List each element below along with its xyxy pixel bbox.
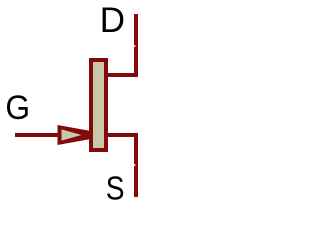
wire gate <box>15 133 60 137</box>
svg-text:G: G <box>5 88 30 126</box>
pin label G <box>5 88 30 126</box>
pin label D <box>100 1 125 40</box>
white speck on source lead <box>134 164 136 166</box>
transistor gate arrow <box>58 125 90 145</box>
svg-text:S: S <box>106 169 125 207</box>
pin label S <box>106 169 125 207</box>
wire drain <box>108 14 136 75</box>
white speck on drain lead <box>134 45 136 47</box>
transistor channel bar <box>91 60 106 150</box>
svg-text:D: D <box>100 1 125 40</box>
wire source <box>108 135 136 197</box>
